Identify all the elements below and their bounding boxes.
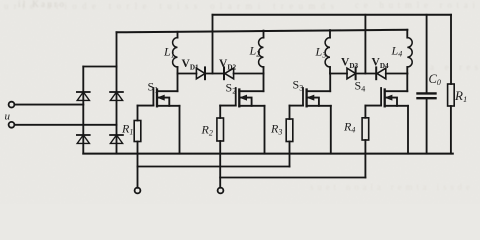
wire: bridge left leg: [82, 67, 84, 154]
wire: gate bus M1: [138, 166, 290, 168]
svg-text:u: u: [5, 111, 11, 123]
wire: VD1 cathode to output junction to VD2 cathode: [205, 73, 224, 75]
MOSFET S1: [138, 74, 180, 154]
wire: R1 to drive terminal: [137, 142, 139, 188]
wire: bridge top node: [83, 66, 116, 68]
wire: R2 to drive terminal: [219, 141, 221, 188]
bridge diode top-left: [77, 92, 90, 100]
wire: phase1 boost node: [178, 73, 197, 75]
drive terminal 2: [218, 188, 224, 194]
wire: R3 down to gate bus M1: [289, 142, 291, 167]
inductor L4: [407, 30, 412, 74]
wire: VD1/VD2 junction riser to output rail: [212, 15, 214, 74]
wire: VD3 cathode to output junction to VD4 cathode: [356, 73, 377, 75]
wire: bridge positive riser: [116, 32, 118, 66]
AC source terminal bottom: [9, 122, 15, 128]
wire: R4 down to gate bus M2: [364, 140, 366, 178]
bridge diode bottom-left: [77, 135, 90, 143]
svg-text:suet noala remta issde: suet noala remta issde: [310, 182, 470, 192]
wire: top output rail: [213, 14, 452, 16]
diode VD3: [347, 67, 356, 79]
drive terminal 1: [135, 188, 141, 194]
resistor R2 (gate): [217, 118, 224, 141]
wire: input rail from bridge to inductors: [117, 30, 408, 33]
AC source terminal top: [9, 102, 15, 108]
capacitor C0: [418, 15, 436, 154]
wire: VD3/VD4 junction riser to output rail: [364, 15, 366, 74]
wire: VD4 anode to phase4 node and L4: [386, 73, 408, 75]
diode VD4: [376, 67, 386, 79]
diode VD1: [196, 67, 205, 79]
faint bleed-through ghost text top: [4, 0, 478, 192]
schematic ink: [9, 15, 455, 194]
wire: bottom return rail: [83, 153, 453, 155]
bridge diode top-right: [110, 92, 123, 100]
wire: output rail right corner down to load: [450, 15, 452, 84]
resistor R3 (gate): [286, 119, 293, 142]
resistor R1 (gate): [134, 121, 141, 142]
wire: VD2 anode to phase2 node and L2: [234, 73, 264, 75]
diode VD2: [224, 67, 234, 79]
MOSFET S4: [365, 74, 408, 154]
wire: bridge right leg: [116, 67, 118, 154]
wire: gate bus M2: [220, 177, 365, 179]
load resistor RL: [448, 84, 455, 154]
resistor R4 (gate): [362, 118, 369, 140]
inductor L1: [173, 32, 178, 74]
wire: bottom AC lead: [14, 124, 116, 126]
inductor L2: [259, 31, 264, 74]
inductor L3: [325, 30, 330, 73]
bridge diode bottom-right: [110, 135, 123, 143]
wire: phase3 boost node: [330, 73, 347, 75]
MOSFET S3: [290, 74, 331, 154]
MOSFET S2: [220, 74, 264, 154]
wire: top AC lead: [14, 104, 83, 106]
